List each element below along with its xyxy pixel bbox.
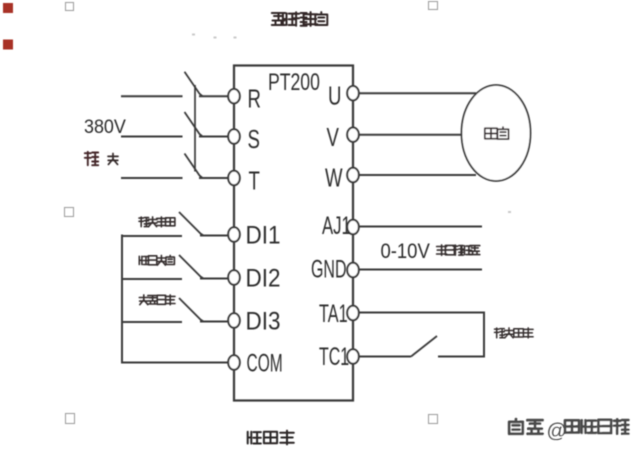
svg-text:TC1: TC1 [319, 344, 349, 371]
label 正转启停 [139, 255, 174, 265]
wire DI1 to terminal [200, 235, 229, 237]
wire DI2 to terminal [200, 278, 229, 280]
red mark square top-left [3, 3, 13, 13]
label PT200 [268, 69, 320, 95]
label 故障输出 [495, 328, 534, 338]
canvas handle square bottom-middle [429, 415, 438, 424]
svg-text:0-10V: 0-10V [380, 240, 430, 264]
svg-text:V: V [327, 123, 340, 152]
svg-text:AJ1: AJ1 [322, 212, 351, 240]
terminal V [327, 123, 359, 152]
wire GND [358, 269, 482, 271]
wire relay right vertical [483, 312, 485, 357]
switch blade fault relay contact [411, 336, 437, 357]
canvas handle square top-middle [429, 2, 438, 10]
svg-text:T: T [248, 167, 260, 196]
wire DI2 input line [122, 278, 182, 280]
terminal DI2 [228, 264, 280, 292]
wire R to terminal [199, 95, 229, 97]
switch tie bar R-S-T [194, 85, 196, 172]
terminal GND [311, 256, 359, 283]
terminal COM [228, 350, 282, 378]
svg-text:S: S [247, 125, 259, 154]
terminal TA1 [319, 301, 359, 328]
motor M1 [462, 85, 531, 181]
svg-text:DI3: DI3 [246, 307, 281, 335]
svg-text:DI1: DI1 [246, 221, 281, 249]
terminal DI3 [228, 307, 280, 335]
svg-text:TA1: TA1 [319, 301, 348, 328]
wire DI bus vertical [121, 235, 123, 363]
wire S input line [121, 136, 183, 138]
svg-text:GND: GND [311, 256, 347, 283]
svg-text:W: W [325, 164, 343, 193]
switch blade phase T [185, 154, 203, 179]
label 故障复位 [139, 217, 175, 227]
switch blade DI1 [179, 212, 204, 236]
artifact dots [192, 34, 511, 214]
switch blade DI3 [179, 298, 204, 322]
svg-text:DI2: DI2 [246, 264, 281, 292]
wire T to terminal [199, 177, 229, 179]
svg-text:380V: 380V [84, 115, 126, 137]
svg-text:COM: COM [247, 350, 283, 378]
label 反转启停 [139, 295, 175, 305]
wire TC1 right segment [438, 356, 485, 358]
wire V to motor [358, 134, 462, 136]
label 模拟量调速 [437, 245, 480, 255]
label 输 入 [85, 152, 118, 165]
canvas handle square top-left [66, 3, 74, 11]
svg-text:R: R [247, 85, 260, 114]
wire R input line [121, 95, 183, 97]
switch blade DI2 [179, 255, 204, 279]
terminal S [228, 125, 260, 154]
wire DI3 input line [122, 321, 182, 323]
wire U to motor [358, 92, 476, 94]
watermark 头条@电工技术 [509, 419, 630, 444]
terminal DI1 [228, 221, 280, 249]
wire DI1 input line [122, 235, 182, 237]
label 电机 [485, 127, 509, 139]
switch blade phase S [185, 112, 203, 137]
wire T input line [121, 177, 183, 179]
svg-text:U: U [328, 82, 341, 111]
label 380V [84, 115, 126, 137]
inverter U1 box PT200 [234, 66, 353, 401]
terminal U [328, 82, 359, 111]
wire S to terminal [199, 136, 229, 138]
caption 接线图 [248, 431, 294, 445]
svg-text:PT200: PT200 [268, 69, 320, 95]
canvas handle square left-middle [65, 208, 74, 217]
terminal T [228, 167, 260, 196]
wire AJ1 analog input [358, 226, 482, 228]
label 0-10V [380, 240, 430, 264]
wire COM line [121, 362, 229, 364]
wire DI3 to terminal [200, 321, 229, 323]
wire TC1 left segment [358, 356, 411, 358]
terminal R [228, 85, 261, 114]
terminal TC1 [319, 344, 359, 371]
canvas handle square bottom-left [66, 414, 75, 424]
red mark square left upper [3, 40, 13, 50]
terminal W [325, 164, 359, 193]
wire W to motor [358, 174, 476, 176]
terminal AJ1 [322, 212, 359, 240]
switch blade phase R [185, 72, 203, 97]
title text 欧科变频器 [272, 12, 328, 26]
wire TA1 [358, 312, 485, 314]
